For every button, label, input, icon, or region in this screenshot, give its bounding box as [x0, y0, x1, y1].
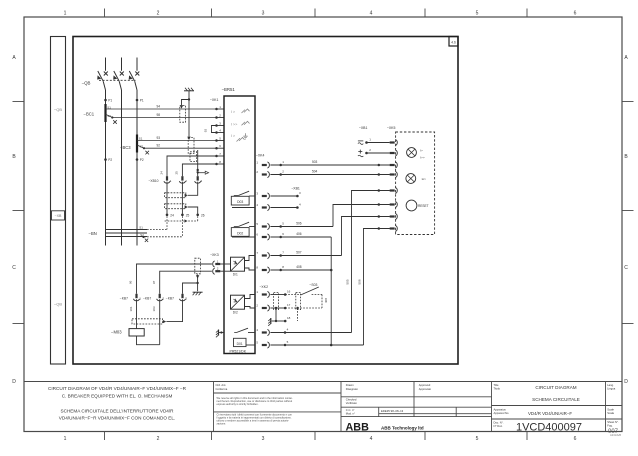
jumper XK1 pins 3-4: [212, 126, 217, 133]
svg-text:Ord. Ant.: Ord. Ant.: [216, 383, 227, 387]
cable marker XK2 b: [296, 292, 301, 309]
wire M03 return: [137, 336, 160, 345]
svg-text:N° Doc.: N° Doc.: [494, 424, 504, 428]
breaker pole at x=121.5: [121, 58, 123, 71]
svg-text:C: C: [12, 265, 16, 271]
title block: [24, 381, 622, 383]
-XK1 pin 2: [215, 116, 218, 119]
terminal block -XB: [52, 211, 65, 220]
svg-text:4.6: 4.6: [451, 40, 456, 44]
svg-text:CIRCUIT DIAGRAM: CIRCUIT DIAGRAM: [535, 385, 576, 390]
svg-text:VD4/UNIAIR−F−R VD4/UNIMIX−F: VD4/UNIAIR−F−R VD4/UNIMIX−F CON COMANDO …: [59, 416, 175, 421]
svg-text:504: 504: [312, 169, 318, 173]
svg-text:25: 25: [186, 213, 190, 217]
svg-text:EDE35 98−08−13: EDE35 98−08−13: [381, 409, 404, 413]
terminal P2 pole3: [136, 158, 139, 161]
svg-text:D/1: D/1: [233, 273, 238, 277]
svg-text:D/2: D/2: [233, 311, 238, 315]
wire D/1 to XK4 pin7: [245, 256, 256, 261]
opto input D/1: [231, 257, 245, 271]
-XK1 pin 1: [215, 108, 218, 111]
earth drain wire (screen): [197, 275, 199, 292]
svg-text:−QB: −QB: [54, 302, 62, 307]
wire XK2-4 row: [270, 332, 351, 334]
svg-text:−XB10: −XB10: [149, 179, 159, 183]
svg-text:1: 1: [64, 11, 67, 17]
junction on wire 26: [197, 169, 199, 171]
-XK5 plug 6: [390, 203, 395, 205]
svg-text:3: 3: [262, 436, 265, 442]
earth at BR51 frame: [218, 330, 220, 336]
svg-text:D: D: [624, 379, 628, 385]
supply symbol line over tilde: [358, 140, 363, 142]
cable marker wires 96/97: [195, 258, 201, 274]
svg-text:Scale: Scale: [607, 407, 614, 411]
-XK5 plug 7: [390, 215, 395, 217]
terminal P1 pole3: [136, 99, 139, 102]
wire 101: [136, 299, 138, 328]
terminal P2 pole1: [104, 158, 107, 161]
svg-text:16: 16: [287, 289, 291, 293]
protection relay -BR51: [224, 96, 255, 354]
svg-text:98: 98: [157, 113, 161, 117]
node 25: [181, 214, 184, 217]
svg-text:D02: D02: [237, 232, 243, 236]
wire XK4 pin4 row inside: [232, 207, 255, 209]
relay contact D03: [231, 196, 249, 205]
wire 94: [106, 108, 217, 110]
-XB10 plug 1: [166, 176, 168, 180]
svg-text:−XK3: −XK3: [210, 253, 219, 257]
svg-text:Sheet N°.: Sheet N°.: [607, 420, 619, 424]
wire 506: [270, 226, 333, 228]
wire XK3-2 into D/1: [224, 270, 231, 272]
svg-text:101: 101: [129, 306, 133, 311]
-XK1 pin 7: [215, 155, 218, 158]
svg-text:17: 17: [287, 303, 291, 307]
wire 504: [270, 174, 390, 176]
svg-text:−XB1: −XB1: [359, 126, 368, 130]
svg-text:S1: S1: [139, 137, 143, 141]
svg-text:Io>: Io>: [422, 177, 427, 181]
-XK1 pin 4: [215, 131, 218, 134]
wire 408: [270, 269, 331, 271]
svg-text:Lang.: Lang.: [607, 383, 614, 387]
svg-text:P2: P2: [140, 158, 144, 162]
svg-text:C. BREAKER EQUIPPED WITH E: C. BREAKER EQUIPPED WITH EL. O. MECHANIS…: [62, 393, 173, 398]
wire XK4 pin6 row inside: [232, 236, 255, 238]
svg-text:4: 4: [370, 11, 373, 17]
opto input D/2: [231, 295, 245, 309]
svg-text:5: 5: [476, 11, 479, 17]
cable bands XB10: [165, 193, 186, 198]
-XK5 plug 3: [390, 164, 395, 166]
-XK1 pin 6: [215, 147, 218, 150]
busbar strip -QB/-XB: [51, 37, 66, 365]
wire XK2-5 row: [270, 344, 363, 346]
wire XB10-2 down: [181, 182, 183, 214]
svg-text:P2: P2: [108, 158, 112, 162]
svg-text:−BC3: −BC3: [120, 145, 131, 150]
svg-text:97: 97: [152, 280, 156, 284]
svg-text:5: 5: [476, 436, 479, 442]
svg-text:−XK2: −XK2: [259, 285, 268, 289]
svg-text:92: 92: [203, 129, 207, 133]
wire 507: [270, 255, 341, 257]
svg-text:P1: P1: [140, 99, 144, 103]
current transformer -BC3: [136, 135, 138, 153]
RESET pushbutton: [406, 200, 417, 211]
wire to node 16: [270, 294, 285, 296]
svg-text:D: D: [12, 379, 16, 385]
-XK3 plug 1: [215, 263, 220, 265]
svg-text:Titolo: Titolo: [494, 386, 501, 390]
svg-text:1: 1: [64, 436, 67, 442]
svg-text:Verificato: Verificato: [346, 401, 358, 405]
svg-text:utilizzo o rendere accessibile: utilizzo o rendere accessibile a terzi i…: [217, 419, 290, 423]
-XK1 pin 8: [215, 163, 218, 166]
svg-text:Checked: Checked: [346, 398, 357, 402]
svg-text:P1: P1: [108, 99, 112, 103]
dashed wire 26 to spare: [197, 216, 199, 221]
svg-text:2: 2: [157, 436, 160, 442]
svg-text:408: 408: [324, 298, 328, 303]
svg-text:−M03: −M03: [111, 329, 122, 334]
-XK5 plug 4: [390, 173, 395, 175]
svg-text:92: 92: [157, 144, 161, 148]
riser wire 505 XK5-5 to XK2-4: [352, 191, 390, 333]
wire D/2 to XK2 pin2: [245, 307, 256, 309]
relay contact D02: [231, 228, 249, 237]
-XK1 pin 3: [215, 124, 218, 127]
earth drain to wire 93: [188, 100, 190, 137]
-XK1 pin 5: [215, 139, 218, 142]
svg-text:Title: Title: [494, 383, 499, 387]
svg-text:Mod. n°: Mod. n°: [346, 411, 355, 415]
svg-text:A231/A/B: A231/A/B: [610, 433, 621, 437]
svg-text:4: 4: [370, 436, 373, 442]
lamp Io>: [406, 174, 416, 184]
-XK3 plug 2: [215, 270, 220, 272]
svg-text:406: 406: [296, 232, 302, 236]
breaker pole at x=105.5: [105, 58, 107, 71]
riser wire 508 XK5-8 to XK2-5: [364, 229, 390, 346]
wire 25 (XK1 pin8 to XB10-2): [182, 164, 216, 176]
svg-text:Disegnato: Disegnato: [346, 387, 359, 391]
svg-text:18: 18: [287, 316, 291, 320]
svg-text:SCHEMA CIRCUITALE: SCHEMA CIRCUITALE: [532, 397, 580, 402]
svg-text:C.C. n°: C.C. n°: [346, 408, 355, 412]
wire D/2 to XK2 pin1: [245, 295, 256, 299]
svg-text:ABB: ABB: [346, 421, 370, 433]
current transformer -BC1: [104, 104, 106, 122]
svg-text:zazione.: zazione.: [217, 422, 227, 426]
svg-text:24: 24: [170, 213, 174, 217]
svg-text:Conferma: Conferma: [216, 387, 228, 391]
svg-text:−XB: −XB: [55, 214, 62, 218]
svg-text:103: 103: [152, 306, 156, 311]
terminal P1 pole1: [104, 99, 107, 102]
svg-text:−KB7: −KB7: [166, 296, 174, 300]
riser wire 506 to XK5-6: [333, 205, 390, 227]
svg-text:C: C: [624, 265, 628, 271]
svg-text:2: 2: [157, 11, 160, 17]
svg-text:−KB7: −KB7: [143, 296, 151, 300]
svg-text:Fog.: Fog.: [607, 424, 613, 428]
cable marker wires 93/92: [188, 138, 194, 154]
svg-text:−S03: −S03: [309, 283, 317, 287]
svg-text:Doc. N°.: Doc. N°.: [494, 420, 504, 424]
svg-text:1VCD400097: 1VCD400097: [516, 422, 582, 434]
svg-text:24: 24: [159, 171, 163, 175]
wire earth to KB7-3: [183, 283, 198, 294]
dashed wire 24 to BN S1: [166, 216, 168, 229]
svg-text:508: 508: [357, 279, 361, 284]
svg-text:−BN: −BN: [89, 231, 97, 236]
svg-text:94: 94: [157, 104, 161, 108]
wire 93: [137, 140, 217, 142]
node 24: [166, 214, 169, 217]
-XK5 plug 1: [390, 141, 395, 143]
svg-text:Apparecchio: Apparecchio: [494, 411, 509, 415]
svg-text:−XK4: −XK4: [256, 154, 265, 158]
svg-text:96: 96: [129, 280, 133, 284]
wire KB7-3 down: [166, 299, 182, 321]
svg-text:93: 93: [157, 136, 161, 140]
junction earth node: [188, 98, 190, 100]
svg-text:−QB: −QB: [82, 80, 91, 85]
svg-text:I>>: I>>: [420, 156, 425, 160]
svg-text:Approved: Approved: [419, 383, 431, 387]
svg-text:I>: I>: [420, 148, 423, 152]
svg-text:408: 408: [296, 265, 302, 269]
svg-text:−BC1: −BC1: [84, 111, 95, 116]
wire XB10-1 down: [166, 182, 168, 214]
svg-text:−BR51: −BR51: [222, 87, 236, 92]
svg-text:506: 506: [296, 221, 302, 225]
svg-text:express authority is strictly: express authority is strictly forbidden.: [217, 402, 259, 406]
earth drain to wire 94: [182, 100, 190, 106]
-XK5 plug 2: [390, 152, 395, 154]
sheet reference flag: [198, 172, 206, 174]
svg-text:26: 26: [201, 213, 205, 217]
svg-text:D03: D03: [237, 200, 243, 204]
wire 406: [270, 236, 331, 238]
wire 26 (to XB10-3): [197, 150, 199, 176]
svg-text:Apparatus: Apparatus: [494, 407, 507, 411]
svg-text:VD4/R VD4/UNIAIR−F: VD4/R VD4/UNIAIR−F: [528, 411, 572, 416]
sheet reference box 4.6: [449, 37, 458, 47]
svg-text:PR521/DK: PR521/DK: [230, 349, 247, 353]
node 18 and earth: [275, 308, 277, 321]
svg-text:ABB Technology ltd: ABB Technology ltd: [381, 425, 424, 430]
svg-text:6: 6: [574, 436, 577, 442]
svg-text:D01: D01: [237, 342, 243, 346]
svg-text:−KB7: −KB7: [120, 296, 128, 300]
breaker pole at x=137.0: [136, 58, 138, 71]
wire XB10-3 branch: [188, 182, 198, 196]
svg-text:Scala: Scala: [607, 411, 614, 415]
riser wire 507 to XK5-7: [342, 217, 390, 256]
wire 103: [159, 299, 161, 345]
svg-text:505: 505: [346, 279, 350, 284]
svg-text:3: 3: [262, 11, 265, 17]
wire 96: [137, 264, 212, 294]
wire 24 (XK1 pin7 to XB10-1): [167, 156, 217, 176]
wire XK3-1 into D/1: [224, 263, 231, 265]
svg-text:Drawn: Drawn: [346, 383, 354, 387]
svg-text:6: 6: [574, 11, 577, 17]
svg-text:Approvato: Approvato: [419, 387, 432, 391]
svg-text:Lingua: Lingua: [607, 386, 616, 390]
svg-text:S1: S1: [139, 226, 143, 230]
-XK5 plug 5: [390, 189, 395, 191]
wire D/1 to XK4 pin8: [245, 268, 256, 270]
wire 92: [137, 145, 144, 148]
svg-text:CIRCUIT DIAGRAM OF VD4/R V: CIRCUIT DIAGRAM OF VD4/R VD4/UNIAIR−F VD…: [48, 386, 187, 391]
main schematic frame: [73, 37, 458, 365]
wire to node 17: [270, 307, 285, 309]
-XK5 plug 8: [390, 227, 395, 229]
svg-text:−XK1: −XK1: [210, 98, 219, 102]
svg-text:−QB: −QB: [54, 107, 62, 112]
node 26: [196, 214, 199, 217]
lamp I> / I>>: [407, 148, 417, 158]
svg-text:SCHEMA CIRCUITALE DELL’INTER: SCHEMA CIRCUITALE DELL’INTERRUTTORE VD4/…: [60, 408, 174, 413]
wire 98: [106, 114, 113, 117]
svg-text:RESET: RESET: [418, 204, 429, 208]
-XB10 plug 2: [181, 176, 183, 180]
svg-text:I >>: I >>: [231, 122, 238, 126]
svg-text:25: 25: [175, 171, 179, 175]
-XB10 plug 3: [197, 176, 199, 180]
supply symbol plus over tilde: [358, 151, 362, 153]
svg-text:−XK5: −XK5: [387, 126, 396, 130]
earth (CT screen): [184, 90, 194, 92]
breaker linkage (dashed): [99, 79, 136, 81]
cable marker XK2 a: [274, 292, 279, 309]
wire 26 branch to dot: [188, 207, 198, 214]
dashed wire 25 to BN S2: [181, 216, 183, 237]
signalling unit (dashed): [396, 132, 435, 235]
relay contact D01: [234, 338, 247, 346]
riser wire 406/408: [330, 237, 332, 345]
cable marker wires 94/98: [180, 106, 186, 123]
cable marker wires 24/25: [190, 152, 197, 162]
wire 97: [160, 271, 212, 294]
cable band 101/103: [132, 319, 163, 324]
wire 503: [270, 164, 390, 166]
svg-text:507: 507: [296, 250, 302, 254]
svg-text:503: 503: [312, 160, 318, 164]
